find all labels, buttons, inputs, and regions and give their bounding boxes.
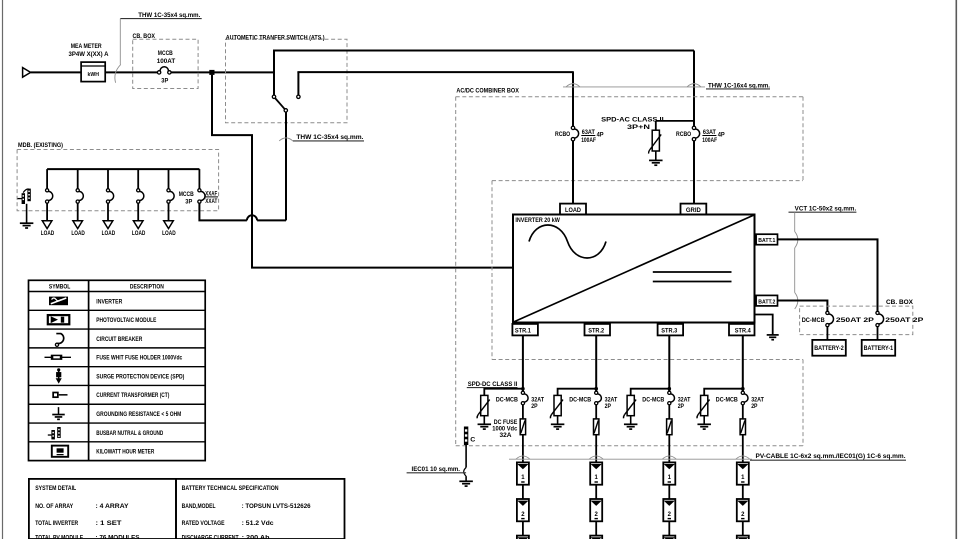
svg-text:NO. OF ARRAY: NO. OF ARRAY (35, 503, 74, 510)
photovoltaic module 3 string 4 (737, 536, 749, 539)
terminal STR.2 (585, 324, 611, 336)
svg-text:FUSE WHIT FUSE HOLDER 1000Vdc: FUSE WHIT FUSE HOLDER 1000Vdc (96, 355, 182, 362)
wire string 4 to PV modules (742, 435, 744, 463)
legend symbol kWh meter (52, 446, 68, 457)
table SYSTEM DETAIL (29, 479, 176, 539)
enclosure MDB. (EXISTING) (17, 150, 219, 211)
breaker MCCB 100AT 3P (157, 71, 160, 74)
svg-text:MEA METER: MEA METER (71, 43, 102, 50)
ground string 1 SPD (478, 423, 492, 425)
wire string 1 SPD branch (484, 389, 523, 396)
ground string 2 SPD (551, 423, 565, 425)
svg-text:STR.2: STR.2 (588, 329, 605, 335)
fuse string 2 (595, 405, 597, 419)
breaker DC-MCB 250AT 2P (battery 2) (826, 311, 829, 314)
terminal STR.1 (512, 324, 538, 336)
surge protection device string 4 (701, 395, 708, 415)
svg-text:2P: 2P (751, 403, 757, 410)
svg-text:THW 1C-35x4 sq.mm.: THW 1C-35x4 sq.mm. (138, 12, 200, 19)
busbar C (grounding) (464, 427, 468, 446)
wire ATS common down (285, 112, 287, 220)
svg-text:STR.4: STR.4 (735, 329, 752, 335)
svg-text:250AT 2P: 250AT 2P (885, 317, 923, 324)
svg-text:PHOTOVOLTAIC MODULE: PHOTOVOLTAIC MODULE (96, 317, 156, 324)
photovoltaic module 2 string 1 (517, 499, 529, 521)
breaker DC-MCB 32AT 2P string 2 (595, 391, 598, 394)
ground string 3 SPD (624, 423, 638, 425)
svg-text:100AT: 100AT (157, 58, 176, 65)
svg-text:CIRCUIT BREAKER: CIRCUIT BREAKER (96, 336, 142, 343)
legend table SYMBOL/DESCRIPTION (29, 280, 206, 460)
ground MDB busbar (20, 222, 33, 224)
terminal STR.3 (658, 324, 684, 336)
svg-text:CURRENT TRANSFORMER (CT): CURRENT TRANSFORMER (CT) (96, 392, 169, 399)
legend symbol circuit breaker (55, 343, 58, 346)
svg-text:4P: 4P (718, 132, 725, 139)
fuse string 4 (742, 405, 744, 419)
svg-text:BATT.1: BATT.1 (758, 238, 775, 244)
photovoltaic module 1 string 1 (517, 462, 529, 484)
svg-text:3P4W X(XX) A: 3P4W X(XX) A (69, 51, 110, 58)
svg-text:: 51.2 Vdc: : 51.2 Vdc (242, 520, 275, 527)
wire string 3 from STR.3 (668, 335, 670, 391)
wire grid RCBO to GRID terminal (693, 141, 695, 204)
svg-text:: 4 ARRAY: : 4 ARRAY (96, 503, 130, 510)
svg-text:SPD-AC CLASS II: SPD-AC CLASS II (601, 116, 664, 123)
wire MDB incomer to ATS common (199, 203, 247, 220)
photovoltaic module 2 string 3 (663, 499, 675, 521)
wire string 3 SPD branch (631, 389, 670, 396)
svg-text:LOAD: LOAD (132, 231, 146, 237)
svg-text:DC-MCB: DC-MCB (802, 317, 825, 324)
breaker RCBO 63AT/100AF 4P (load) (571, 126, 574, 129)
surge protection device string 2 (554, 395, 561, 415)
wire grid top run (273, 50, 694, 52)
wire BATT.2 to battery breaker (778, 301, 828, 312)
enclosure AUTOMETIC TRANFER SWITCH (ATS.) (226, 39, 348, 123)
svg-text:2P: 2P (678, 403, 684, 410)
svg-text:KILOWATT HOUR METER: KILOWATT HOUR METER (96, 449, 154, 456)
ground inverter chassis (755, 315, 773, 335)
svg-text:SPD-DC CLASS II: SPD-DC CLASS II (468, 381, 518, 388)
svg-text:C: C (470, 437, 476, 444)
svg-text:: 76 MODULES: : 76 MODULES (96, 535, 140, 539)
ATS contact A with riser to grid line (273, 51, 275, 96)
breaker DC-MCB 32AT 2P string 3 (668, 391, 671, 394)
svg-text:BAND,MODEL: BAND,MODEL (182, 503, 216, 510)
legend symbol current transformer (52, 392, 58, 398)
svg-text:250AT 2P: 250AT 2P (836, 317, 874, 324)
svg-text:kWH: kWH (87, 72, 99, 78)
svg-text:SURGE PROTECTION DEVICE (SPD): SURGE PROTECTION DEVICE (SPD) (96, 373, 184, 380)
svg-text:: 1 SET: : 1 SET (96, 520, 122, 527)
wire string 3 to PV modules (668, 435, 670, 463)
wire CT branch to inverter AC input (212, 75, 513, 268)
svg-text:LOAD: LOAD (102, 231, 116, 237)
svg-text:MCCB: MCCB (158, 50, 173, 57)
wire string 2 SPD branch (558, 389, 597, 396)
svg-text:GRID: GRID (686, 208, 702, 214)
photovoltaic module 2 string 2 (590, 499, 602, 521)
cable label THW 1C-16x4 sq.mm. (563, 86, 705, 88)
svg-text:BUSBAR NUTRAL & GROUND: BUSBAR NUTRAL & GROUND (96, 430, 163, 437)
svg-text:STR.1: STR.1 (515, 329, 532, 335)
legend symbol busbar (48, 434, 52, 436)
node string 2 SPD tap (594, 387, 598, 391)
table BATTERY TECHNICAL SPECIFICATION (176, 479, 345, 539)
svg-text:LOAD: LOAD (565, 208, 582, 214)
svg-text:BATTERY-2: BATTERY-2 (814, 346, 844, 352)
fuse string 1 (522, 405, 524, 419)
wire load top run (297, 71, 573, 73)
terminal BATT.2 (756, 295, 777, 306)
ground SPD-AC (649, 159, 663, 161)
legend symbol grounding (58, 407, 60, 414)
svg-text:3P+N: 3P+N (627, 124, 651, 131)
photovoltaic module 3 string 3 (663, 536, 675, 539)
inverter U1 20 kW (513, 215, 755, 323)
svg-text:STR.3: STR.3 (661, 329, 678, 335)
node string 3 SPD tap (668, 387, 672, 391)
load arrow 4 (133, 221, 143, 229)
MDB feeder breaker 2 (77, 169, 79, 189)
MDB feeder breaker 4 (137, 169, 139, 189)
ATS switch blade (275, 98, 285, 109)
svg-text:32A: 32A (500, 432, 513, 439)
svg-text:THW 1C-35x4 sq.mm.: THW 1C-35x4 sq.mm. (296, 134, 363, 141)
breaker DC-MCB 32AT 2P string 1 (521, 391, 524, 394)
svg-text:3P: 3P (185, 199, 192, 205)
ground busbar C (459, 480, 473, 482)
wire string 1 to PV modules (522, 435, 524, 463)
wire hop over CT branch (247, 215, 257, 220)
incoming supply arrow (23, 68, 31, 78)
svg-text:INVERTER: INVERTER (96, 298, 122, 305)
surge protection device string 1 (481, 395, 488, 415)
load arrow 5 (164, 221, 174, 229)
svg-text:BATTERY-1: BATTERY-1 (864, 346, 894, 352)
svg-text:DISCHARGE CURRENT: DISCHARGE CURRENT (182, 535, 239, 539)
svg-text:100AF: 100AF (702, 137, 717, 144)
svg-text:LOAD: LOAD (41, 231, 55, 237)
svg-text:VCT 1C-50x2 sq.mm.: VCT 1C-50x2 sq.mm. (795, 206, 857, 213)
svg-text:RATED VOLTAGE: RATED VOLTAGE (182, 520, 225, 527)
svg-text:BATTERY TECHNICAL SPECIFICATIO: BATTERY TECHNICAL SPECIFICATION (182, 485, 279, 492)
load arrow 3 (103, 221, 113, 229)
legend symbol SPD (58, 369, 60, 383)
MDB bus bar top (47, 168, 199, 170)
legend symbol photovoltaic module (48, 315, 70, 324)
svg-text:DC-MCB: DC-MCB (716, 397, 738, 404)
terminal BATT.1 (756, 234, 777, 245)
inverter AC sine symbol (529, 225, 606, 258)
svg-text:GROUNDING RESISTANCE < 5 OHM: GROUNDING RESISTANCE < 5 OHM (96, 411, 181, 418)
wire busbar C to ground (465, 445, 467, 468)
svg-text:4P: 4P (597, 132, 604, 139)
breaker RCBO 63AT/100AF 4P (grid) (692, 126, 695, 129)
photovoltaic module 1 string 4 (737, 462, 749, 484)
svg-text:PV-CABLE 1C-6x2 sq.mm./IEC01(G: PV-CABLE 1C-6x2 sq.mm./IEC01(G) 1C-6 sq.… (756, 453, 906, 460)
legend symbol inverter (49, 297, 68, 306)
svg-text:: 200 Ah: : 200 Ah (242, 535, 270, 539)
svg-text:DC-MCB: DC-MCB (642, 397, 664, 404)
svg-text:RCBO: RCBO (676, 131, 691, 138)
cable label PV-CABLE 1C-6x2 sq.mm./IEC01(G) 1C-6 sq.mm. (509, 458, 752, 460)
svg-text:SYMBOL: SYMBOL (49, 284, 71, 291)
svg-text:DC-MCB: DC-MCB (496, 397, 518, 404)
load arrow 1 (42, 221, 52, 229)
svg-text:LOAD: LOAD (71, 231, 85, 237)
ATS contact B with riser to load line (297, 72, 299, 95)
svg-text:2P: 2P (605, 403, 611, 410)
wire string 1 from STR.1 (522, 335, 524, 391)
svg-text:MDB. (EXISTING): MDB. (EXISTING) (18, 142, 63, 149)
photovoltaic module 1 string 2 (590, 462, 602, 484)
svg-text:2P: 2P (531, 403, 537, 410)
svg-text:MCCB: MCCB (179, 192, 195, 198)
svg-text:RCBO: RCBO (555, 131, 570, 138)
wire BATT.1 to battery breaker (778, 239, 878, 311)
wire load RCBO to LOAD terminal (572, 141, 574, 204)
current transformer CT (209, 70, 214, 75)
node string 1 SPD tap (521, 387, 525, 391)
svg-text:TOTAL INVERTER: TOTAL INVERTER (35, 520, 78, 527)
photovoltaic module 3 string 1 (517, 536, 529, 539)
svg-text:CB. BOX: CB. BOX (133, 33, 156, 40)
svg-text:100AF: 100AF (581, 137, 596, 144)
wire string 4 from STR.4 (742, 335, 744, 391)
svg-text:TOTAL PV MODULE: TOTAL PV MODULE (35, 535, 83, 539)
photovoltaic module 2 string 4 (737, 499, 749, 521)
svg-text:LOAD: LOAD (162, 231, 176, 237)
terminal GRID (681, 204, 707, 215)
svg-text:DESCRIPTION: DESCRIPTION (130, 284, 164, 291)
enclosure CB. BOX (main breaker) (133, 39, 198, 88)
MDB incomer breaker MCCB 3P XXAF/XXAT (198, 169, 200, 189)
wire string 2 to PV modules (595, 435, 597, 463)
photovoltaic module 3 string 2 (590, 536, 602, 539)
node string 4 SPD tap (741, 387, 745, 391)
kilowatt-hour meter kWH (81, 62, 105, 82)
svg-text:BATT.2: BATT.2 (758, 299, 775, 305)
legend symbol fuse (45, 356, 72, 358)
ground string 4 SPD (697, 423, 711, 425)
svg-text:AC/DC COMBINER BOX: AC/DC COMBINER BOX (456, 88, 519, 95)
MDB feeder breaker 3 (107, 169, 109, 189)
wire main AC feeder (31, 71, 82, 73)
MDB feeder breaker 5 (168, 169, 170, 189)
svg-text:DC-MCB: DC-MCB (569, 397, 591, 404)
battery BATTERY-1 (862, 340, 896, 356)
svg-text:SYSTEM DETAIL: SYSTEM DETAIL (35, 485, 76, 492)
inverter diagonal (514, 215, 755, 322)
breaker DC-MCB 32AT 2P string 4 (741, 391, 744, 394)
svg-text:3P: 3P (161, 78, 168, 85)
surge protection device string 3 (627, 395, 634, 415)
svg-text:IEC01 10 sq.mm.: IEC01 10 sq.mm. (412, 466, 461, 473)
wire string 2 from STR.2 (595, 335, 597, 391)
busbar neutral and ground (18, 198, 23, 200)
terminal LOAD (560, 204, 586, 215)
wire string 4 SPD branch (704, 389, 743, 396)
load arrow 2 (73, 221, 83, 229)
MDB feeder breaker 1 (46, 169, 48, 189)
breaker DC-MCB 250AT 2P (battery 1) (876, 311, 879, 314)
fuse string 3 (668, 405, 670, 419)
svg-text:XXAT: XXAT (205, 199, 217, 205)
terminal STR.4 (729, 324, 755, 336)
svg-text:: TOPSUN LVTS-512626: : TOPSUN LVTS-512626 (242, 503, 312, 510)
photovoltaic module 1 string 3 (663, 462, 675, 484)
svg-text:AUTOMETIC TRANFER SWITCH (ATS.: AUTOMETIC TRANFER SWITCH (ATS.) (226, 34, 325, 41)
inverter DC symbol lines (653, 271, 732, 273)
svg-text:INVERTER 20 kW: INVERTER 20 kW (515, 217, 560, 224)
svg-text:CB. BOX: CB. BOX (886, 299, 914, 306)
battery BATTERY-2 (812, 340, 846, 356)
